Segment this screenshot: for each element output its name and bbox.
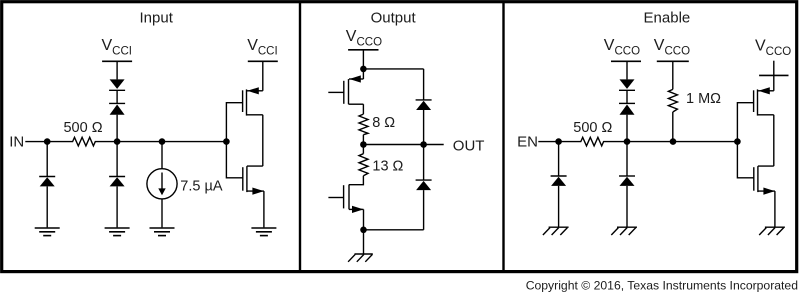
transistor Q2 NMOS body: [243, 166, 264, 192]
wire node G to diode bus bottom: [364, 229, 424, 231]
diode D4 clamp to ground: [109, 177, 125, 187]
resistor R5 1 Mohm: [668, 89, 677, 112]
wire node J to gate node K: [673, 141, 737, 143]
wire node B to diode D4: [116, 142, 118, 177]
wire node OUT to diode D6: [423, 145, 425, 181]
svg-text:Output: Output: [371, 9, 417, 26]
wire VCCO rail to node E: [362, 50, 364, 69]
transistor Q1 arrow: [247, 87, 258, 94]
ground (earth) under current source: [150, 228, 175, 236]
svg-text:500 Ω: 500 Ω: [63, 120, 102, 136]
wire node C to current source I1: [161, 142, 163, 169]
wire diode D1 to ground: [46, 186, 48, 227]
transistor Q3 PMOS body: [328, 69, 363, 104]
wire node C to gate node D: [162, 141, 226, 143]
diode D8 upper clamp (points down): [619, 79, 635, 90]
wire Q5 source crossing VCCO bar: [773, 61, 775, 91]
ground (earth) under diode D1: [35, 228, 60, 236]
current source I1 circle: [147, 169, 177, 199]
wire Q1 source to VCCI rail: [262, 61, 264, 91]
diode D3 lower clamp (points up): [109, 103, 125, 114]
svg-text:Copyright © 2016, Texas Instru: Copyright © 2016, Texas Instruments Inco…: [526, 278, 798, 292]
transistor Q6 NMOS body: [754, 166, 775, 192]
wire diode D8 to diode D9: [626, 90, 628, 103]
diode D9 lower clamp (points up): [619, 103, 635, 114]
resistor R4 500 ohm: [559, 137, 627, 146]
ground (earth) under Q2: [251, 228, 276, 236]
wire Q2 source to ground: [263, 191, 265, 227]
svg-text:OUT: OUT: [453, 137, 485, 154]
power rail VCCI (inverter): [248, 60, 278, 62]
wire node A to diode D1: [46, 142, 48, 177]
transistor Q3 arrow: [349, 75, 361, 82]
wire node I to node J: [627, 141, 673, 143]
wire node H to diode D7: [558, 142, 560, 176]
wire diode D10 to ground: [626, 186, 628, 227]
diode D10 clamp to ground: [619, 176, 635, 186]
svg-text:Input: Input: [140, 9, 174, 26]
wire diode D5 to node OUT: [423, 110, 425, 145]
node K junction dot (gate node): [734, 138, 741, 145]
node A junction dot: [44, 138, 51, 145]
svg-text:EN: EN: [517, 134, 538, 151]
wire diode D7 to ground: [558, 186, 560, 227]
diode D7 EN clamp to ground: [551, 176, 567, 186]
wire IN lead: [25, 141, 47, 143]
transistor Q1 PMOS body: [243, 89, 263, 115]
wire node E to diode bus top: [363, 68, 423, 70]
transistor Q4 NMOS body: [328, 185, 363, 210]
ground (earth) under diode D4: [105, 228, 130, 236]
node F junction dot: [360, 141, 367, 148]
node J junction dot: [670, 138, 677, 145]
wire node F to OUT terminal: [363, 144, 443, 146]
wire R2 to node F: [362, 135, 364, 145]
ground (chassis) under D10: [611, 227, 637, 235]
transistor Q5 PMOS body: [754, 89, 774, 115]
current source I1 arrow: [158, 173, 165, 196]
ground (chassis) under Q6: [759, 227, 785, 235]
wire Q4 source to node G: [363, 209, 365, 229]
wire R5 to node J: [672, 112, 674, 142]
wire current source to ground: [161, 199, 163, 228]
wire diode D9 to node I: [626, 115, 628, 142]
wire diode D4 to ground: [116, 186, 118, 227]
node C junction dot: [159, 138, 166, 145]
svg-text:Enable: Enable: [644, 9, 691, 26]
resistor R1 500 ohm: [47, 137, 117, 146]
node H junction dot: [555, 138, 562, 145]
wire Q1 drain to Q2 drain: [262, 115, 264, 166]
diode D2 upper clamp (points down): [109, 79, 125, 90]
wire EN lead: [538, 141, 558, 143]
wire VCCO to diode D8: [626, 61, 628, 79]
ground (chassis) output: [348, 254, 373, 262]
svg-text:1 MΩ: 1 MΩ: [686, 91, 721, 107]
node B junction dot: [114, 138, 121, 145]
wire node F to resistor R3: [362, 145, 364, 154]
diode D5 clamp OUT to VCCO: [416, 100, 432, 110]
wire Q3 drain to resistor R2: [362, 104, 364, 114]
node E junction dot: [360, 66, 367, 73]
svg-text:500 Ω: 500 Ω: [573, 120, 612, 136]
power rail VCCI (clamp stack): [102, 60, 132, 62]
wire node I to diode D10: [626, 142, 628, 176]
power rail VCCO bar (crossed): [759, 74, 788, 76]
wire diode D6 to bottom bus: [423, 190, 425, 230]
wire R3 to Q4 drain: [349, 176, 363, 185]
wire Q6 source to ground: [774, 191, 776, 227]
ground (chassis) under D7: [543, 227, 569, 235]
resistor R3 13 ohm: [359, 154, 368, 176]
gate bus wire (Q1/Q2 gates): [226, 103, 242, 178]
transistor Q6 arrow: [763, 188, 775, 195]
wire VCCO to resistor R5: [672, 61, 674, 89]
diode D6 clamp GND to OUT: [416, 180, 432, 190]
wire diode D2 to diode D3: [116, 90, 118, 103]
wire VCCI rail to diode D2: [116, 61, 118, 79]
transistor Q4 arrow: [352, 206, 364, 213]
resistor R2 8 ohm: [359, 114, 368, 135]
node I junction dot: [624, 138, 631, 145]
svg-text:8 Ω: 8 Ω: [372, 115, 395, 131]
wire node G to chassis ground: [363, 230, 365, 254]
transistor Q5 arrow: [758, 87, 770, 94]
wire node B to node C: [117, 141, 162, 143]
diode D1 input clamp to ground: [39, 177, 55, 187]
power rail VCCO (enable clamp): [611, 60, 641, 62]
wire diode D3 to node B: [116, 115, 118, 142]
svg-text:13 Ω: 13 Ω: [372, 159, 403, 175]
gate bus wire (Q5/Q6 gates): [737, 103, 753, 178]
wire diode bus top segment: [423, 69, 425, 100]
svg-text:7.5 µA: 7.5 µA: [180, 178, 223, 194]
node D junction dot (gate node): [223, 138, 230, 145]
node OUT junction dot: [420, 141, 427, 148]
transistor Q2 arrow: [252, 188, 264, 195]
svg-text:IN: IN: [9, 133, 24, 150]
node G junction dot: [360, 227, 367, 234]
power rail VCCO (output): [348, 49, 378, 51]
power rail VCCO (pull-up): [657, 60, 689, 62]
wire Q5 drain to Q6 drain: [773, 115, 775, 166]
